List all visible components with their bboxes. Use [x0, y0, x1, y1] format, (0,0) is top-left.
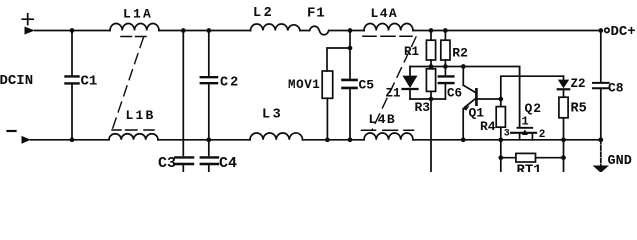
wire top rail segment 1: [35, 30, 110, 32]
svg-text:MOV1: MOV1: [288, 78, 320, 92]
svg-text:L3: L3: [262, 108, 283, 123]
wire base node to Z2 feed: [501, 76, 564, 99]
wire R3 ground stub: [430, 99, 432, 172]
ground: [593, 140, 632, 173]
zener Z2: [558, 76, 586, 97]
wire top rail segment 2: [159, 30, 251, 32]
coupling core L4 diagonal: [372, 37, 416, 130]
coupling core L1 dashes bottom: [112, 129, 154, 131]
coupling core L1 diagonal: [112, 38, 143, 131]
resistor R5: [559, 97, 587, 142]
resistor R4: [480, 97, 505, 142]
wire top rail segment 4: [329, 30, 364, 32]
svg-text:L2: L2: [253, 6, 274, 21]
svg-text:C4: C4: [219, 155, 237, 172]
capacitor C6: [439, 67, 462, 101]
wire R4 ground stub: [500, 140, 502, 172]
inductor L2: [251, 6, 301, 31]
wire bottom rail segment 3: [303, 139, 365, 141]
capacitor C3: [158, 28, 193, 172]
svg-text:DC+: DC+: [611, 24, 636, 40]
wire R5 ground stub: [563, 140, 565, 172]
fuse F1: [307, 6, 329, 35]
svg-text:C5: C5: [359, 78, 375, 93]
wire top rail segment 3: [300, 30, 310, 32]
svg-text:R2: R2: [452, 46, 468, 61]
coupling core L4 dashes bottom: [362, 129, 414, 131]
coupling core L4 dashes top: [363, 35, 412, 37]
capacitor C1: [66, 28, 98, 142]
svg-text:GND: GND: [608, 154, 632, 169]
capacitor C5: [343, 78, 375, 143]
inductor L1A: [110, 7, 159, 31]
svg-text:R5: R5: [571, 102, 587, 117]
transistor Q2: [504, 67, 546, 141]
zener Z1: [386, 67, 418, 101]
svg-text:2: 2: [539, 129, 546, 141]
svg-text:R1: R1: [404, 45, 419, 59]
svg-text:1: 1: [522, 115, 529, 129]
svg-text:Z1: Z1: [386, 87, 401, 101]
svg-text:L4A: L4A: [371, 6, 399, 21]
inductor L3: [250, 108, 303, 140]
wire C3 branch vertical: [182, 31, 184, 156]
transistor Q1: [461, 67, 501, 143]
thermistor RT1: [498, 153, 565, 178]
coupling core L1 dashes top: [121, 36, 146, 38]
capacitor C8: [593, 28, 624, 142]
svg-text:L4B: L4B: [369, 112, 397, 127]
node plus input terminal: [22, 14, 35, 35]
svg-text:R3: R3: [415, 100, 431, 115]
svg-text:L1A: L1A: [123, 7, 153, 22]
resistor R3: [415, 69, 436, 115]
wire bottom rail segment 2: [158, 139, 250, 141]
svg-text:RT1: RT1: [517, 163, 542, 173]
node DC+ output terminal: [605, 24, 636, 40]
inductor L4B: [364, 112, 413, 140]
wire bottom rail segment 4: [413, 139, 601, 141]
svg-text:R4: R4: [480, 119, 496, 134]
wire top rail segment 5: [413, 30, 601, 32]
inductor L1B: [109, 108, 158, 140]
wire mid control bus y65.5: [410, 64, 520, 69]
svg-text:C6: C6: [447, 87, 462, 101]
svg-text:C1: C1: [81, 74, 98, 90]
node minus input terminal: [8, 131, 31, 144]
svg-text:C3: C3: [158, 155, 176, 172]
svg-text:Z2: Z2: [571, 77, 586, 91]
svg-text:C2: C2: [220, 76, 240, 91]
wire bottom rail segment 1: [31, 139, 109, 141]
svg-text:F1: F1: [307, 6, 325, 22]
varistor MOV1: [288, 71, 333, 142]
wire Z1 R3 bottom bus y99: [410, 97, 445, 102]
svg-text:C8: C8: [608, 81, 624, 96]
capacitor C4: [201, 155, 237, 172]
capacitor C2: [201, 28, 240, 155]
wire MOV1 C5 tee: [327, 28, 352, 78]
svg-text:3: 3: [504, 128, 510, 139]
resistor R2: [441, 28, 468, 66]
svg-text:L1B: L1B: [126, 108, 156, 123]
inductor L4A: [364, 6, 413, 31]
resistor R1: [404, 28, 436, 66]
svg-text:DCIN: DCIN: [0, 73, 33, 89]
